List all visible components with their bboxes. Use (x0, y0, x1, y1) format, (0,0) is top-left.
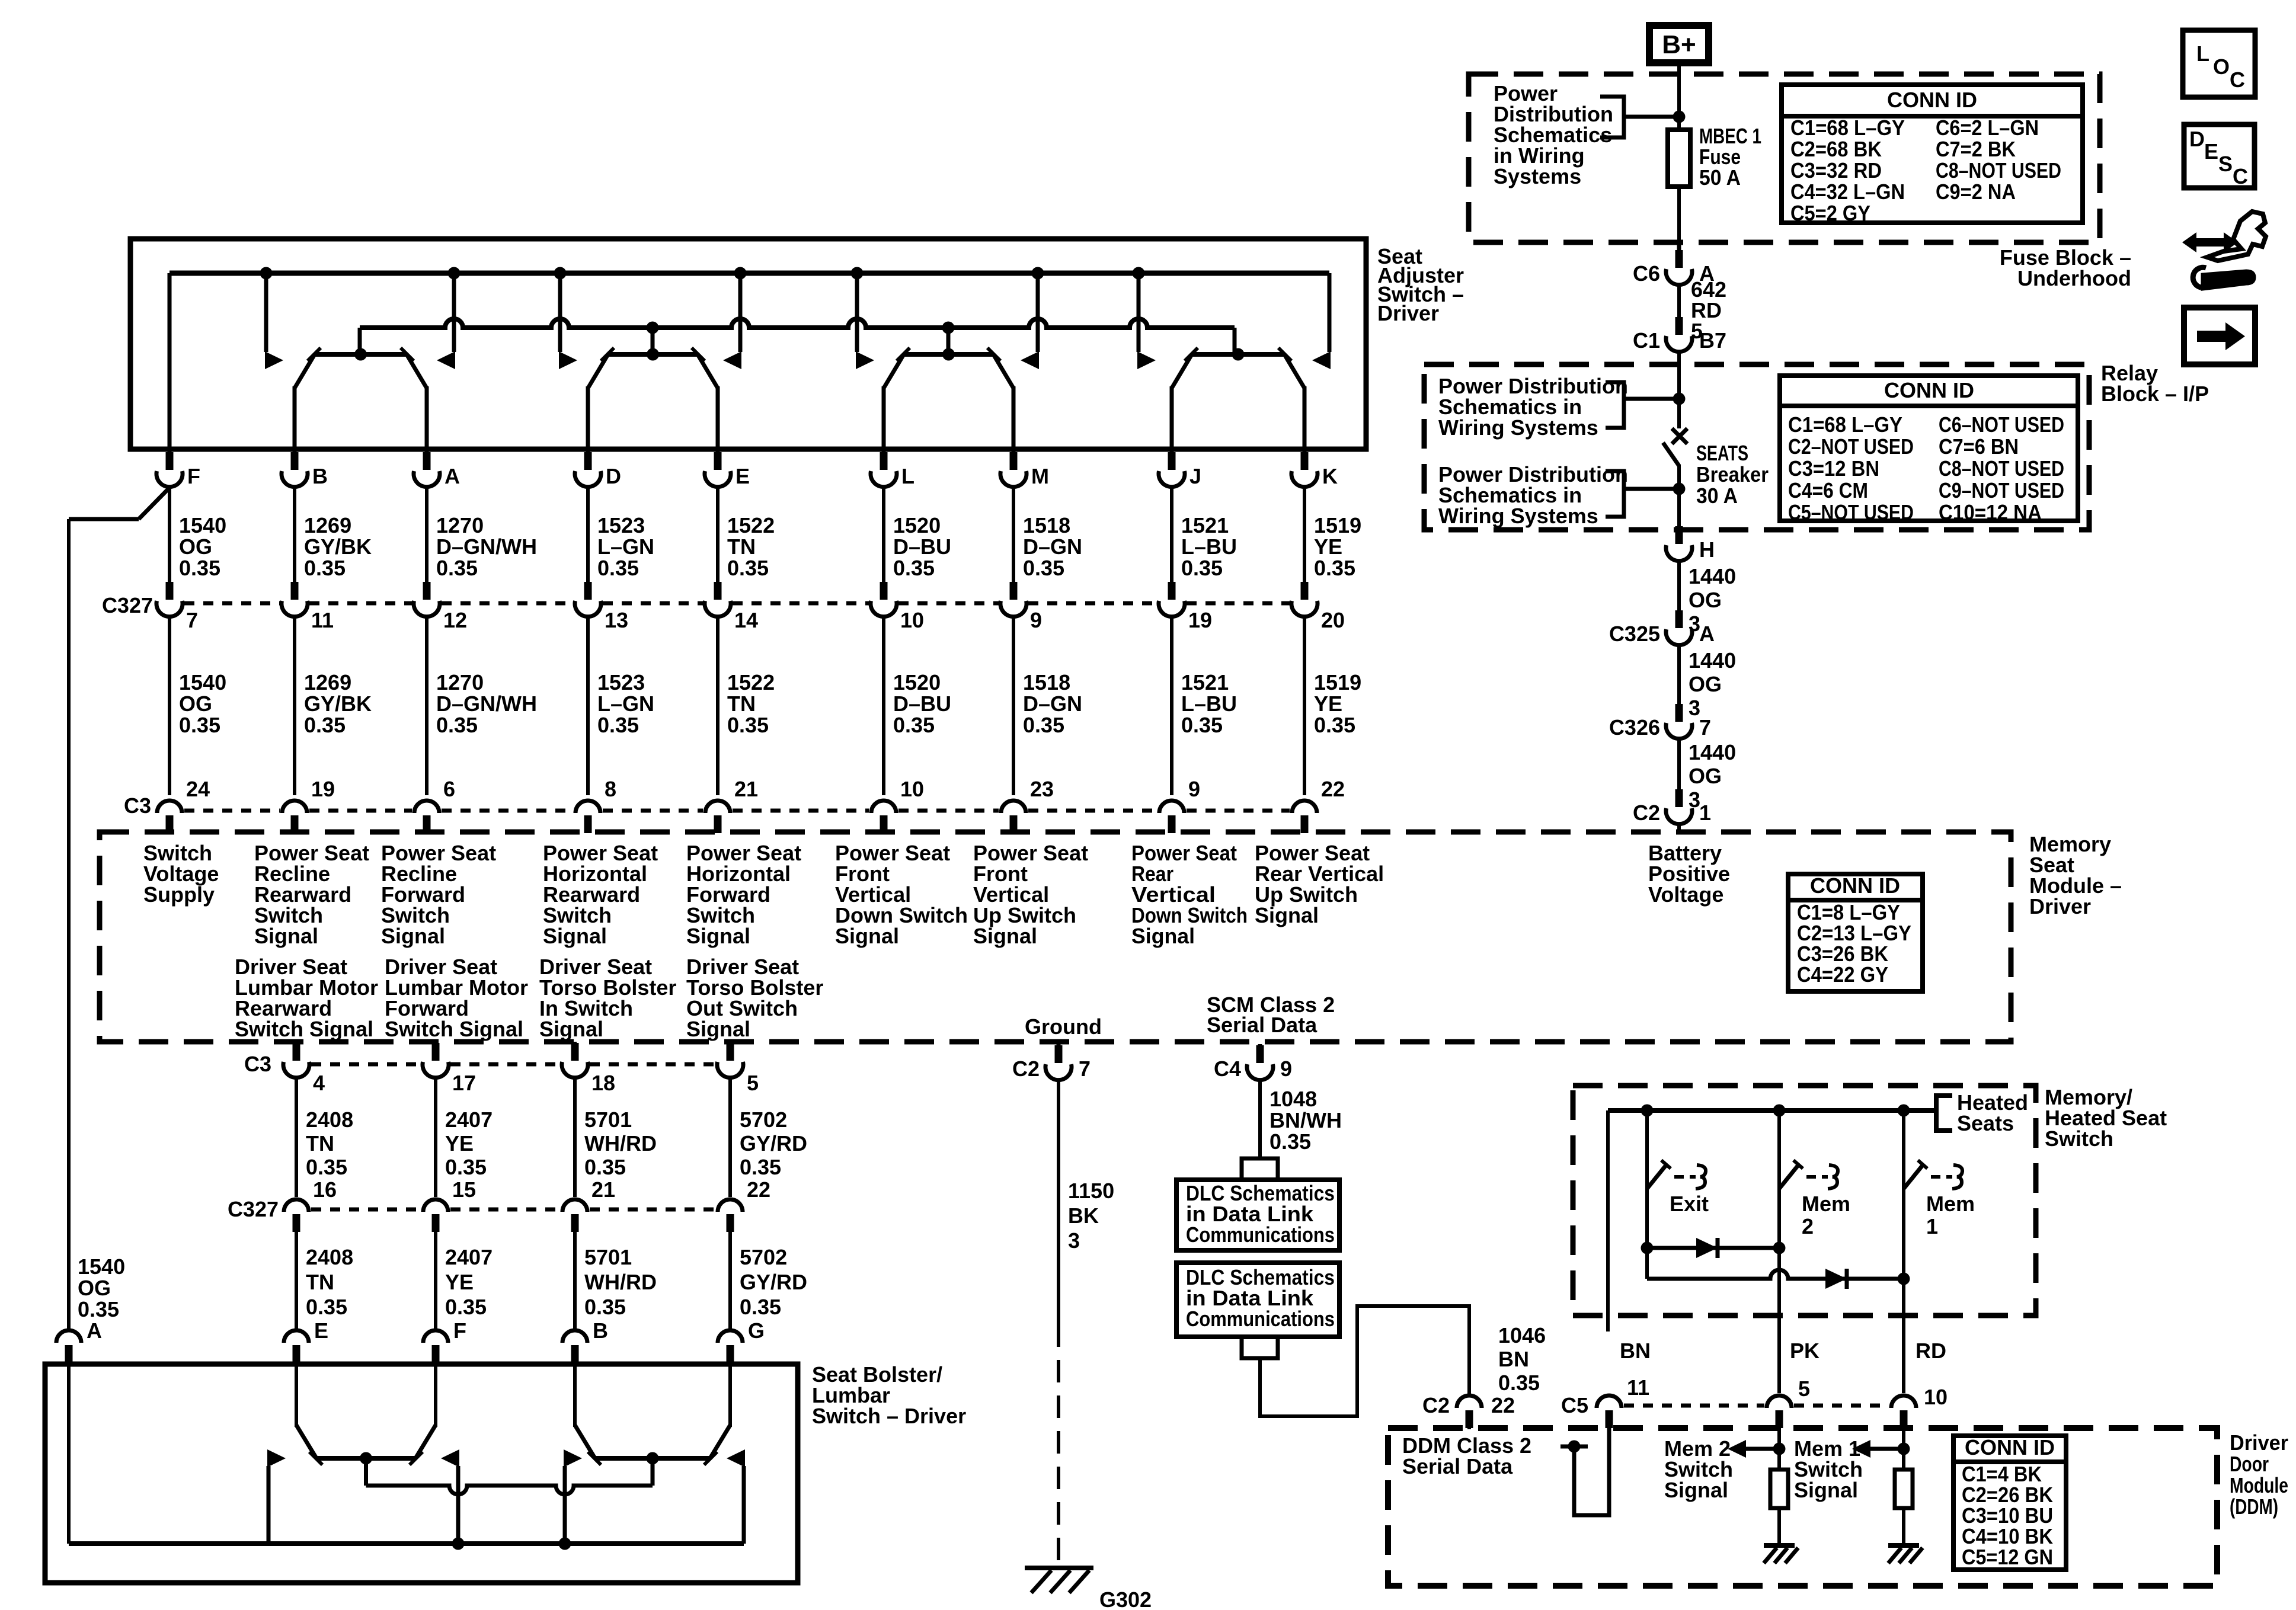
svg-text:Driver: Driver (2230, 1430, 2288, 1455)
svg-text:A: A (1699, 622, 1715, 646)
svg-text:C5=2 GY: C5=2 GY (1790, 201, 1870, 225)
wire 1540 OG 0.35 (168, 488, 171, 583)
svg-text:1520: 1520 (893, 670, 941, 694)
svg-text:0.35: 0.35 (1181, 713, 1223, 737)
reference bracket 1 (1606, 382, 1624, 428)
svg-text:15: 15 (452, 1177, 476, 1202)
connector pin B seat bolster switch (562, 1318, 608, 1364)
actuator arrow at x=766 (437, 351, 455, 369)
connector C5 cavity 5 (1767, 1377, 1810, 1429)
svg-text:7: 7 (186, 608, 198, 632)
diode row 1 (1647, 1246, 1779, 1250)
connector C327 cavity 20 (1291, 582, 1345, 632)
svg-text:30 A: 30 A (1696, 484, 1738, 508)
svg-text:1150: 1150 (1068, 1179, 1114, 1203)
svg-text:0.35: 0.35 (893, 713, 935, 737)
svg-text:M: M (1031, 464, 1049, 488)
relay block CONN ID table (1780, 376, 2078, 524)
svg-text:CONN ID: CONN ID (1887, 88, 1977, 112)
svg-text:Signal: Signal (539, 1017, 603, 1041)
svg-text:Serial Data: Serial Data (1402, 1454, 1513, 1478)
pin 11 internal path (1574, 1428, 1609, 1515)
connector C5 cavity 11 (1597, 1375, 1649, 1429)
svg-text:0.35: 0.35 (584, 1295, 626, 1319)
connector C3 cavity 21 (705, 777, 758, 833)
svg-text:YE: YE (1314, 534, 1342, 559)
wire 1522 TN 0.35 (716, 488, 720, 583)
svg-text:Wiring Systems: Wiring Systems (1438, 415, 1598, 440)
svg-text:0.35: 0.35 (445, 1155, 487, 1179)
wire 1048 BN/WH 0.35 (1258, 1081, 1262, 1157)
svg-text:C: C (2233, 164, 2248, 188)
svg-text:F: F (187, 464, 200, 488)
connector C327 cavity 12 (414, 582, 467, 632)
seat bolster/lumbar switch - driver box (45, 1364, 798, 1583)
svg-text:A: A (445, 464, 460, 488)
svg-text:Signal: Signal (1131, 924, 1195, 948)
svg-text:1270: 1270 (436, 513, 484, 537)
actuator arrow at x=1446 (856, 351, 874, 369)
connector C3 cavity 19 (282, 777, 335, 833)
svg-text:0.35: 0.35 (597, 556, 639, 580)
svg-text:C2: C2 (1422, 1393, 1450, 1417)
svg-text:G302: G302 (1099, 1587, 1152, 1610)
svg-text:23: 23 (1030, 777, 1054, 801)
svg-text:B7: B7 (1699, 328, 1726, 353)
svg-text:Ground: Ground (1025, 1014, 1102, 1039)
diode D2 (1825, 1269, 1847, 1289)
connector C3 cavity 9 (1159, 777, 1200, 833)
connector pin A seat bolster switch (56, 1318, 102, 1364)
bolster actuator arrow x=953 (564, 1449, 582, 1467)
switch Mem (1779, 1110, 1850, 1238)
svg-text:C8–NOT USED: C8–NOT USED (1939, 456, 2064, 481)
svg-text:L–BU: L–BU (1181, 534, 1237, 559)
svg-text:CONN ID: CONN ID (1884, 378, 1974, 402)
svg-text:C327: C327 (102, 593, 153, 617)
connector C327 cavity 9 (1000, 582, 1042, 632)
svg-text:9: 9 (1188, 777, 1200, 801)
svg-text:L: L (2196, 41, 2209, 66)
svg-text:0.35: 0.35 (893, 556, 935, 580)
rocker blades (295, 354, 315, 388)
wire 1440 OG 3 segment 2 (1677, 646, 1681, 705)
svg-text:TN: TN (306, 1270, 334, 1294)
connector pin E seat bolster switch (284, 1318, 328, 1364)
bolster rocker blades (575, 1425, 595, 1458)
connector C3 cavity 18 (562, 1043, 615, 1095)
actuator arrow at x=449 (265, 351, 283, 369)
wire 2407 YE 0.35 (434, 1079, 437, 1197)
svg-text:11: 11 (311, 608, 334, 632)
svg-text:Wiring Systems: Wiring Systems (1438, 504, 1598, 528)
svg-text:(DDM): (DDM) (2230, 1494, 2278, 1519)
svg-text:0.35: 0.35 (727, 556, 769, 580)
svg-text:D–GN/WH: D–GN/WH (436, 534, 537, 559)
svg-text:E: E (2204, 139, 2218, 164)
svg-text:7: 7 (1079, 1057, 1091, 1081)
svg-text:0.35: 0.35 (306, 1155, 347, 1179)
svg-text:D: D (2189, 127, 2205, 151)
actuator arrow at x=1249 (723, 351, 741, 369)
connector C3 cavity 24 (157, 777, 210, 833)
svg-text:C7=2 BK: C7=2 BK (1936, 137, 2016, 161)
svg-text:Switch – Driver: Switch – Driver (812, 1404, 966, 1428)
svg-text:J: J (1189, 464, 1201, 488)
arrow stem x=766 (452, 273, 456, 352)
connector C2 cavity 1 (1633, 789, 1711, 825)
svg-text:0.35: 0.35 (740, 1155, 781, 1179)
svg-text:C1=68 L–GY: C1=68 L–GY (1788, 412, 1902, 437)
svg-text:BK: BK (1068, 1204, 1099, 1228)
svg-text:OG: OG (179, 692, 212, 716)
svg-text:1540: 1540 (78, 1254, 125, 1279)
wire 1523 L-GN 0.35 (586, 488, 590, 583)
wire 5701 WH/RD 0.35 (573, 1079, 577, 1197)
svg-text:D–GN/WH: D–GN/WH (436, 692, 537, 716)
arrow stem x=1751 (1036, 273, 1040, 352)
relay block I/P dashed box (1424, 364, 2089, 530)
svg-text:GY/BK: GY/BK (304, 692, 372, 716)
mem1 wire down (1902, 1189, 1905, 1393)
wire 1440 OG 3 segment 3 (1677, 740, 1681, 790)
svg-text:C1=68 L–GY: C1=68 L–GY (1790, 116, 1905, 140)
svg-text:19: 19 (311, 777, 335, 801)
svg-text:Communications: Communications (1186, 1307, 1335, 1331)
connector C5 cavity 10 (1891, 1385, 1948, 1429)
connector C327 cavity 13 (575, 582, 628, 632)
svg-text:0.35: 0.35 (1498, 1371, 1540, 1395)
connector C327 cavity 22 (718, 1177, 770, 1232)
svg-text:Supply: Supply (143, 882, 215, 907)
svg-text:0.35: 0.35 (436, 556, 478, 580)
adjuster upper bus (170, 271, 1329, 276)
bolster actuator arrow x=453 (267, 1449, 286, 1467)
exit lower wire (1645, 1189, 1649, 1279)
arrow stem x=945 (558, 273, 562, 352)
connector C3 cavity 23 (1001, 777, 1054, 833)
svg-text:CONN ID: CONN ID (1810, 873, 1900, 898)
svg-text:Block – I/P: Block – I/P (2101, 382, 2209, 406)
svg-text:5702: 5702 (740, 1245, 787, 1269)
svg-text:B: B (593, 1318, 608, 1343)
connector C2 cavity 22 (1422, 1393, 1515, 1429)
connector C327 cavity 11 (282, 582, 334, 632)
svg-text:G: G (748, 1318, 765, 1343)
svg-text:1521: 1521 (1181, 513, 1229, 537)
wire 1270 D-GN/WH 0.35 (425, 488, 428, 583)
svg-text:1522: 1522 (727, 513, 775, 537)
mem 2 switch signal arrow (1745, 1447, 1779, 1451)
svg-text:C3=12 BN: C3=12 BN (1788, 456, 1879, 481)
svg-text:0.35: 0.35 (727, 713, 769, 737)
svg-text:1440: 1440 (1689, 648, 1736, 673)
connector pin L seat adjuster switch (871, 452, 914, 488)
svg-text:Signal: Signal (973, 924, 1037, 948)
svg-text:C4: C4 (1214, 1057, 1241, 1081)
svg-text:Signal: Signal (1255, 903, 1319, 927)
svg-text:9: 9 (1030, 608, 1042, 632)
connector pin J seat adjuster switch (1159, 452, 1201, 488)
mem1 pulldown resistor (1902, 1428, 1905, 1470)
rocker switch bar 497-720 (315, 352, 407, 357)
wire 1520 D-BU 0.35 (lower) (882, 618, 885, 795)
svg-text:OG: OG (1689, 672, 1722, 696)
connector pin F seat bolster switch (423, 1318, 466, 1364)
memory/heated seat switch dashed box (1573, 1086, 2036, 1315)
actuator arrow at x=1921 (1137, 351, 1156, 369)
svg-text:0.35: 0.35 (1023, 556, 1064, 580)
mem2 ground (1764, 1543, 1795, 1548)
wire 1521 L-BU 0.35 (1170, 488, 1173, 583)
svg-text:Switch Signal: Switch Signal (385, 1017, 523, 1041)
seat adjuster switch - driver box (130, 239, 1366, 449)
connector C327 cavity 10 (871, 582, 924, 632)
rocker switch bar 1491-1710 (904, 352, 993, 357)
svg-text:Voltage: Voltage (1648, 882, 1723, 907)
svg-text:12: 12 (443, 608, 467, 632)
svg-text:21: 21 (734, 777, 758, 801)
svg-text:L: L (901, 464, 914, 488)
svg-text:WH/RD: WH/RD (584, 1131, 657, 1156)
fuse block CONN ID table (1782, 85, 2083, 225)
mem1 ground (1888, 1543, 1919, 1548)
connector pin E seat adjuster switch (705, 452, 750, 488)
svg-text:TN: TN (306, 1131, 334, 1156)
connector pin A seat adjuster switch (414, 452, 460, 488)
rocker blades (884, 354, 904, 388)
svg-text:C4=6 CM: C4=6 CM (1788, 478, 1868, 502)
connector C327 cavity 14 (705, 582, 758, 632)
connector C3 cavity 8 (575, 777, 616, 833)
wire 5701 WH/RD 0.35 (lower) (573, 1232, 577, 1329)
svg-text:F: F (453, 1318, 466, 1343)
svg-text:0.35: 0.35 (78, 1297, 119, 1321)
svg-text:2407: 2407 (445, 1245, 493, 1269)
svg-text:1520: 1520 (893, 513, 941, 537)
svg-text:22: 22 (1321, 777, 1345, 801)
svg-text:22: 22 (747, 1177, 770, 1202)
wire 1269 GY/BK 0.35 (lower) (293, 618, 296, 795)
long wire 1540 OG 0.35 from F to bolster A (139, 487, 170, 519)
memory seat module - driver dashed box (100, 832, 2011, 1042)
svg-text:3: 3 (1068, 1228, 1080, 1253)
svg-text:BN: BN (1620, 1339, 1651, 1363)
svg-text:YE: YE (445, 1131, 474, 1156)
mem 1 switch signal arrow (1869, 1447, 1904, 1451)
heated seats bracket (1936, 1096, 1952, 1131)
bolster rocker blades (296, 1425, 316, 1458)
svg-text:5701: 5701 (584, 1245, 632, 1269)
svg-text:Signal: Signal (1664, 1478, 1728, 1502)
svg-text:0.35: 0.35 (445, 1295, 487, 1319)
DESC icon box (2184, 124, 2255, 188)
svg-text:C2=68 BK: C2=68 BK (1790, 137, 1882, 161)
rocker switch bar 992-1211 (608, 352, 698, 357)
svg-text:16: 16 (313, 1177, 337, 1202)
DLC connector bracket top (1242, 1158, 1278, 1180)
svg-text:L–GN: L–GN (597, 692, 654, 716)
left branch to pin 11 (1606, 1110, 1610, 1331)
svg-text:YE: YE (445, 1270, 474, 1294)
svg-text:5702: 5702 (740, 1108, 787, 1132)
arrow stem x=1249 (738, 273, 743, 352)
svg-text:24: 24 (186, 777, 210, 801)
connector C3 cavity 4 (283, 1043, 325, 1095)
svg-text:0.35: 0.35 (1314, 713, 1355, 737)
svg-text:7: 7 (1699, 715, 1711, 740)
wire 1519 YE 0.35 (1303, 488, 1306, 583)
svg-text:Driver: Driver (2029, 894, 2091, 918)
svg-text:OG: OG (1689, 588, 1722, 612)
svg-text:50 A: 50 A (1699, 165, 1741, 190)
svg-text:E: E (314, 1318, 328, 1343)
svg-text:Breaker: Breaker (1696, 462, 1769, 486)
svg-text:17: 17 (452, 1071, 476, 1095)
rocker blades (1172, 354, 1192, 388)
wire 1046 BN 0.35 path (1260, 1306, 1469, 1416)
connector C327 cavity 21 (562, 1177, 615, 1232)
adjuster lower bus with hops (360, 319, 1235, 328)
svg-text:Serial Data: Serial Data (1207, 1013, 1318, 1037)
svg-text:C5=12 GN: C5=12 GN (1962, 1545, 2053, 1569)
adjuster bus right drop to arrow (1328, 273, 1332, 352)
svg-text:C3: C3 (244, 1052, 271, 1076)
connector C3 cavity 10 (871, 777, 924, 833)
svg-text:1522: 1522 (727, 670, 775, 694)
svg-text:C9–NOT USED: C9–NOT USED (1939, 478, 2064, 502)
svg-text:GY/RD: GY/RD (740, 1270, 807, 1294)
svg-text:0.35: 0.35 (1023, 713, 1064, 737)
battery positive B+ symbol (1649, 25, 1709, 63)
svg-text:0.35: 0.35 (306, 1295, 347, 1319)
connector C327 cavity 16 (284, 1177, 337, 1232)
SEATS breaker 30 A (1663, 364, 1687, 530)
bolster actuator arrow x=1255 (727, 1449, 745, 1467)
svg-text:21: 21 (591, 1177, 615, 1202)
connector C325 cavity A (1609, 610, 1715, 646)
svg-text:14: 14 (734, 608, 758, 632)
arrow stem x=1446 (855, 273, 859, 352)
svg-text:0.35: 0.35 (584, 1155, 626, 1179)
DLC schematics box 1 (1176, 1180, 1339, 1250)
arrow stem x=1921 (1137, 273, 1141, 352)
svg-text:Switch Signal: Switch Signal (235, 1017, 373, 1041)
F wire inside box (168, 273, 172, 449)
svg-text:Switch: Switch (2045, 1126, 2113, 1151)
svg-text:1046: 1046 (1498, 1323, 1546, 1347)
svg-text:BN/WH: BN/WH (1269, 1108, 1342, 1132)
svg-text:D–BU: D–BU (893, 534, 951, 559)
svg-text:TN: TN (727, 692, 756, 716)
svg-text:H: H (1699, 537, 1715, 562)
actuator arrow at x=2243 (1312, 351, 1331, 369)
DLC connector bracket bottom (1242, 1337, 1278, 1358)
wire 1520 D-BU 0.35 (882, 488, 885, 583)
svg-text:9: 9 (1280, 1057, 1292, 1081)
connector cavity H (1666, 526, 1715, 562)
bolster rocker bar 500-735 (316, 1456, 415, 1461)
svg-text:0.35: 0.35 (1181, 556, 1223, 580)
svg-text:D–GN: D–GN (1023, 692, 1082, 716)
heated seats bus (1608, 1108, 1936, 1113)
svg-text:C325: C325 (1609, 622, 1660, 646)
svg-text:0.35: 0.35 (179, 713, 220, 737)
connector C326 cavity 7 (1609, 704, 1711, 740)
mem2 wire down (1777, 1189, 1781, 1393)
svg-text:C4=32 L–GN: C4=32 L–GN (1790, 180, 1905, 204)
DDM CONN ID table (1953, 1435, 2066, 1570)
svg-text:4: 4 (313, 1071, 325, 1095)
svg-text:Module: Module (2230, 1473, 2288, 1497)
svg-text:O: O (2213, 55, 2230, 79)
svg-text:6: 6 (443, 777, 455, 801)
wire 1270 D-GN/WH 0.35 (lower) (425, 618, 428, 795)
svg-text:Door: Door (2230, 1452, 2269, 1476)
rocker blades (588, 354, 608, 388)
svg-text:0.35: 0.35 (436, 713, 478, 737)
svg-text:1269: 1269 (304, 670, 351, 694)
svg-text:1540: 1540 (179, 513, 226, 537)
svg-text:1440: 1440 (1689, 564, 1736, 588)
connector pin B seat adjuster switch (282, 452, 328, 488)
wire 2408 TN 0.35 (lower) (295, 1232, 298, 1329)
svg-text:K: K (1322, 464, 1338, 488)
bolster A wire and bottom bus (67, 1364, 71, 1544)
svg-text:C327: C327 (228, 1197, 279, 1221)
svg-text:C326: C326 (1609, 715, 1660, 740)
svg-text:Mem: Mem (1926, 1192, 1975, 1216)
mem2 pulldown resistor (1777, 1428, 1781, 1470)
svg-text:A: A (87, 1318, 102, 1343)
svg-text:YE: YE (1314, 692, 1342, 716)
svg-text:1: 1 (1699, 801, 1711, 825)
svg-text:1523: 1523 (597, 513, 645, 537)
wire 5702 GY/RD 0.35 (lower) (728, 1232, 732, 1329)
svg-text:5: 5 (747, 1071, 759, 1095)
wire 2408 TN 0.35 (295, 1079, 298, 1197)
switch Mem (1904, 1110, 1975, 1238)
svg-text:Mem: Mem (1802, 1192, 1850, 1216)
reference bracket 2 (1606, 471, 1624, 517)
svg-text:10: 10 (900, 777, 924, 801)
wire 1540 OG 0.35 (lower) (168, 618, 171, 795)
module CONN ID table (1788, 873, 1923, 991)
svg-text:TN: TN (727, 534, 756, 559)
bolster rocker bar 970-1232 (595, 1456, 710, 1461)
svg-text:OG: OG (1689, 764, 1722, 788)
connector C3 cavity 5 (717, 1043, 759, 1095)
connector C327 cavity 7 (156, 582, 198, 632)
svg-text:1270: 1270 (436, 670, 484, 694)
svg-text:Signal: Signal (835, 924, 899, 948)
connector C4 cavity 9 (SCM class 2 serial data) (1214, 1044, 1292, 1081)
fuse block underhood dashed box (1469, 74, 2100, 242)
svg-text:D–BU: D–BU (893, 692, 951, 716)
svg-text:S: S (2218, 152, 2233, 176)
svg-text:10: 10 (1924, 1385, 1948, 1409)
svg-text:Signal: Signal (381, 924, 445, 948)
rocker switch bar 1977-2201 (1192, 352, 1284, 357)
wire 1269 GY/BK 0.35 (293, 488, 296, 583)
svg-text:1521: 1521 (1181, 670, 1229, 694)
svg-text:B: B (312, 464, 328, 488)
connector C3 cavity 6 (414, 777, 455, 833)
svg-text:0.35: 0.35 (1269, 1129, 1311, 1154)
actuator arrow at x=945 (559, 351, 577, 369)
svg-text:Seats: Seats (1957, 1111, 2014, 1135)
svg-text:C4=22 GY: C4=22 GY (1797, 962, 1888, 987)
